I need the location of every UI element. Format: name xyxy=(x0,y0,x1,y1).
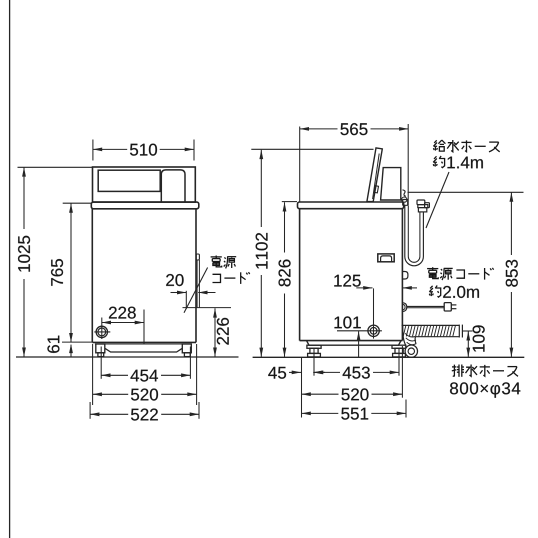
front view control panel xyxy=(93,167,196,202)
side view open lid xyxy=(367,148,382,202)
dim 101 reference line xyxy=(337,330,382,332)
dim 522 extension lines xyxy=(89,402,91,419)
front view top plate xyxy=(91,202,199,209)
dim 454 extension lines xyxy=(100,347,102,379)
drain hose elbow outlet xyxy=(405,345,417,357)
label 800xphi34 xyxy=(450,382,520,397)
label 給水ホース leader xyxy=(426,172,449,228)
side view base xyxy=(307,341,402,346)
water supply hose U bend xyxy=(405,257,424,266)
side view water inlet nipple xyxy=(403,200,408,206)
front view base top line xyxy=(95,343,192,345)
dim 765 xyxy=(70,203,72,342)
front view power cord xyxy=(196,260,198,308)
front view left foot xyxy=(96,344,105,353)
side view rear cord clip xyxy=(402,272,408,280)
side view lid hinge xyxy=(374,186,378,193)
dim 765 top stub xyxy=(63,202,91,204)
front view drain cap circle xyxy=(96,326,107,337)
label 電源コード front xyxy=(211,256,222,267)
side view detergent handle xyxy=(378,254,394,262)
side view body rear edge xyxy=(401,209,403,341)
power cord plug xyxy=(444,303,451,311)
dim 45 and 453 extension lines xyxy=(313,349,315,376)
dim 454 xyxy=(101,374,190,376)
front view right foot xyxy=(182,344,191,353)
side view water inlet hook xyxy=(403,190,406,197)
dim 520 side extension lines xyxy=(301,358,303,418)
water supply hose left leg xyxy=(404,205,406,256)
dim 61 stub xyxy=(62,341,92,343)
lid top reference line xyxy=(251,148,373,150)
dim 1025 xyxy=(23,167,25,356)
side view front foot xyxy=(307,345,321,348)
front view floor line xyxy=(16,356,239,358)
dim 20 extension line xyxy=(185,291,187,309)
dim 228 xyxy=(102,322,144,324)
label 電源コード front leader xyxy=(184,268,208,313)
dim 125 xyxy=(356,287,372,289)
dim 826 top stub xyxy=(282,201,297,203)
page left border line xyxy=(9,0,11,538)
front view base skirt xyxy=(105,348,182,352)
front view power cord clip xyxy=(196,254,199,260)
dim 565 xyxy=(300,128,409,130)
dim 565 extension lines xyxy=(299,127,301,203)
water supply hose right leg xyxy=(419,212,421,257)
dim 45 xyxy=(289,371,301,373)
side view control panel xyxy=(381,168,401,200)
side view floor line xyxy=(253,356,525,358)
front view lid knob xyxy=(161,170,185,202)
dim 520 front xyxy=(93,393,197,395)
dim 510 xyxy=(93,148,194,150)
dim 20 xyxy=(171,292,187,294)
label 排水ホース xyxy=(452,365,464,377)
dim 853 xyxy=(510,192,512,357)
dim 228 extension line xyxy=(101,318,103,340)
dim 109 xyxy=(467,331,469,357)
dim 1102 xyxy=(260,150,262,357)
label 約2.0m xyxy=(429,286,440,298)
label 約1.4m xyxy=(433,156,444,168)
power cord strain relief xyxy=(403,303,407,312)
dim 125 extension line xyxy=(373,288,375,338)
drain hose end cap xyxy=(458,325,460,338)
label 電源コード side xyxy=(427,267,438,278)
dim 826 xyxy=(284,202,286,357)
dim 520 side xyxy=(302,393,403,395)
dim 510 extension lines xyxy=(92,140,94,161)
label 給水ホース xyxy=(433,140,445,151)
drain hose tube xyxy=(402,324,460,326)
dim 109 reference line xyxy=(463,330,473,332)
front view body bottom xyxy=(92,341,196,343)
dim 226 xyxy=(214,308,216,357)
power cord end reference line xyxy=(183,307,232,309)
dim 551 xyxy=(302,412,407,414)
dim 520 front extension lines xyxy=(92,344,94,405)
side view top plate xyxy=(298,202,404,209)
front view body left edge xyxy=(91,209,93,343)
faucet connector xyxy=(417,200,425,205)
side view rear foot xyxy=(392,345,406,348)
hose height reference line xyxy=(408,191,524,193)
drain hose elbow xyxy=(403,325,406,346)
side view plate rear knob xyxy=(402,197,407,202)
front view display window xyxy=(98,170,160,191)
side view body bottom xyxy=(300,340,403,342)
side view body front edge xyxy=(299,209,301,341)
power cord side xyxy=(407,305,444,307)
side view drain outlet circle xyxy=(368,325,379,336)
dim 522 xyxy=(90,413,199,415)
dim 61 xyxy=(70,345,72,357)
front view body right edge xyxy=(195,209,197,343)
dim 1025 top stub xyxy=(18,166,93,168)
dim 453 xyxy=(314,371,399,373)
dim 101 xyxy=(358,331,360,357)
